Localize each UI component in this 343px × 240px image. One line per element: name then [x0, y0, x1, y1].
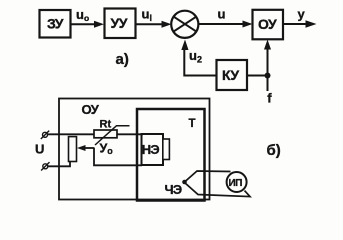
thermocouple wire upper to ИП — [185, 171, 231, 182]
svg-text:ОУ: ОУ — [258, 16, 277, 32]
svg-text:ЗУ: ЗУ — [47, 16, 64, 32]
junction dot f node — [265, 73, 271, 79]
svg-text:f: f — [267, 91, 272, 106]
svg-text:u: u — [218, 7, 226, 22]
wire f to КУ — [247, 75, 268, 77]
inner box T — [137, 109, 205, 201]
block KU (КУ) — [217, 60, 248, 90]
wire top terminal to Rt — [48, 133, 95, 135]
wire u_o (ЗУ to УУ) with arrow — [71, 21, 105, 28]
arrow u2 into comparator — [181, 40, 188, 51]
wire Rt to НЭ — [117, 133, 143, 135]
svg-text:НЭ: НЭ — [142, 142, 160, 157]
wire bottom terminal to potentiometer — [48, 162, 70, 167]
wire КУ to u2 elbow — [184, 47, 216, 76]
outer box OU (bottom) — [59, 99, 210, 200]
terminal bottom — [41, 162, 49, 170]
svg-text:б): б) — [267, 142, 281, 159]
heater block НЭ — [142, 134, 164, 165]
thermistor Rt — [94, 126, 130, 145]
svg-text:УУ: УУ — [111, 15, 128, 31]
svg-text:ОУ: ОУ — [82, 102, 100, 117]
wire f vertical with arrow into ОУ — [264, 40, 271, 92]
thermocouple wire lower to ИП — [185, 183, 251, 197]
block ZU (ЗУ) — [40, 10, 71, 38]
instrument ИП circle — [227, 172, 247, 192]
block OU top (ОУ) — [253, 10, 284, 40]
svg-text:а): а) — [116, 51, 129, 68]
heater element resistor — [163, 139, 170, 160]
svg-text:ИП: ИП — [229, 178, 243, 189]
svg-text:y: y — [298, 7, 306, 22]
wire wiper elbow to НЭ bottom — [94, 148, 142, 165]
terminal top — [41, 131, 49, 139]
wire u (comparator to ОУ) with arrow — [199, 21, 253, 28]
svg-text:ЧЭ: ЧЭ — [165, 182, 182, 197]
svg-text:Т: Т — [189, 118, 196, 130]
thermocouple junction ЧЭ — [182, 180, 187, 185]
wiper arrow into potentiometer — [77, 145, 95, 151]
comparator circle with X — [171, 11, 198, 38]
svg-text:U: U — [35, 142, 44, 157]
wire y (output) with arrow — [283, 20, 317, 27]
potentiometer — [69, 137, 77, 162]
svg-text:КУ: КУ — [222, 67, 239, 83]
block UU (УУ) — [105, 9, 136, 39]
svg-text:Rt: Rt — [100, 119, 112, 131]
wire u_1 (УУ to comparator) with arrow — [136, 21, 172, 28]
